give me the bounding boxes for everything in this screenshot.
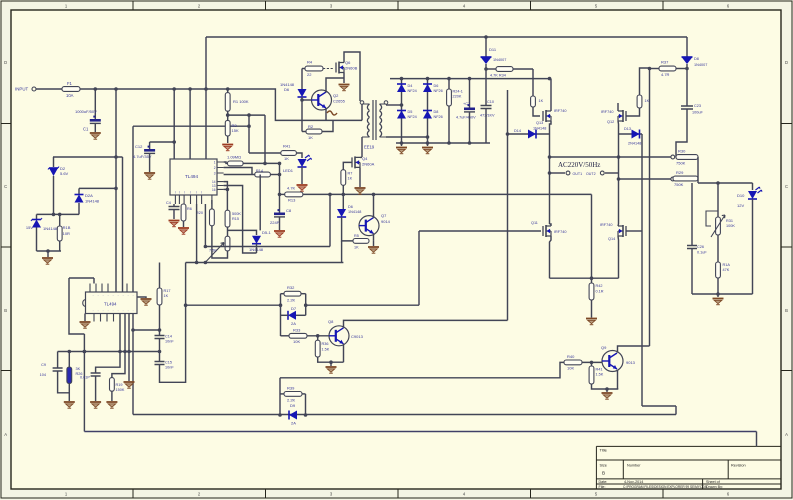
junction x618 y157 [617, 155, 621, 159]
resistor R3 [225, 120, 230, 136]
U1 pin stubs [175, 162, 223, 204]
wire rectifier top bus y78 [390, 78, 550, 80]
svg-text:4.7K: 4.7K [287, 186, 296, 191]
junction bus x330 [328, 193, 332, 197]
wire C9 bottom [58, 371, 70, 393]
wire C23 bottom to AC node [676, 109, 687, 157]
wire rectifier bottom bus y143 [396, 142, 490, 144]
wire R6 bottom [183, 221, 185, 227]
svg-text:D9: D9 [290, 403, 296, 408]
diode D9 [289, 411, 297, 420]
svg-text:+C7: +C7 [463, 102, 470, 106]
junction x84 bus [83, 350, 87, 354]
diode D6b 2N4148 [337, 209, 346, 217]
wire Q11 gate drive [419, 230, 541, 232]
svg-text:D11: D11 [489, 47, 497, 52]
diode D11 1N4007 [481, 57, 492, 64]
junction bus y351 x69.3 [68, 350, 72, 354]
wire R18 bottom loop [212, 226, 228, 258]
junction ground chain [46, 249, 50, 253]
resistor R32 [284, 291, 301, 296]
svg-text:B: B [602, 471, 605, 476]
resistor R14 [255, 172, 271, 177]
junction D11 top [484, 35, 488, 39]
wire D2A top to x116 [79, 187, 116, 189]
svg-text:A: A [4, 432, 7, 437]
wire D7 right stub [296, 314, 306, 316]
wire R32 loop right [305, 294, 307, 316]
svg-text:3: 3 [214, 172, 216, 176]
svg-text:2N60A: 2N60A [362, 162, 375, 167]
wire bridge leg2 [427, 79, 429, 143]
resistor R15 500K [225, 210, 230, 227]
svg-text:16: 16 [212, 188, 216, 192]
wire D7 left stub [281, 314, 289, 316]
terminal J2 [671, 177, 675, 181]
svg-text:C9: C9 [41, 363, 46, 367]
wire C26 top [691, 183, 693, 246]
terminal OUT1 [566, 171, 570, 175]
svg-text:2.2K: 2.2K [287, 298, 296, 303]
svg-text:Date:: Date: [599, 480, 608, 484]
svg-text:0.1R: 0.1R [596, 290, 604, 294]
junction loop right [304, 303, 308, 307]
ground under LED1 [297, 185, 308, 191]
wire R4 to Q6 gate dashed [323, 68, 334, 70]
wire y251 horizontal [37, 250, 62, 252]
svg-text:D: D [4, 60, 7, 65]
wire R42 to ground [591, 300, 593, 318]
svg-text:D2A: D2A [85, 193, 93, 198]
diode D7 [288, 311, 296, 320]
ground x126 [124, 382, 135, 388]
svg-text:2N4148: 2N4148 [628, 142, 641, 146]
transistor Q13 MOSFET IRF740 [543, 110, 551, 122]
wire R40 left [540, 362, 564, 377]
svg-text:22: 22 [307, 72, 312, 77]
junction R24-1 bottom [447, 141, 451, 145]
wire U1 pin1 to R12 [224, 162, 228, 163]
junction input rail x206 [204, 87, 208, 91]
transistor Q8 [329, 326, 349, 346]
svg-text:500K: 500K [232, 212, 241, 216]
junction leg2 bottom [426, 141, 430, 145]
resistor R2 [306, 129, 322, 134]
wire C7 bottom [469, 112, 471, 143]
wire R36 bottom [318, 357, 344, 362]
resistor R40 [564, 360, 582, 365]
svg-text:750K: 750K [674, 182, 684, 187]
junction y142 x174 [172, 140, 176, 144]
svg-text:NF24: NF24 [408, 89, 417, 93]
wire source rail y278 [550, 277, 619, 279]
svg-text:R4: R4 [307, 60, 313, 65]
junction input rail x116 [114, 87, 118, 91]
wire R12 right [243, 162, 279, 164]
wire R34 right [513, 68, 533, 70]
svg-text:4.7K R34: 4.7K R34 [490, 74, 506, 78]
wire D8 to C23 [686, 64, 688, 106]
svg-text:5.6V: 5.6V [60, 171, 69, 176]
wire transformer left top pin [361, 105, 363, 121]
svg-text:47K: 47K [723, 268, 730, 272]
svg-text:R1 100K: R1 100K [233, 99, 249, 104]
resistor R42 [589, 283, 594, 300]
wire C8 bottom [279, 217, 281, 230]
wire vertical x116 long [115, 89, 117, 292]
junction leg1 top [400, 77, 404, 81]
svg-text:D7: D7 [291, 306, 297, 311]
trimmer R18 wiper arrow [205, 243, 224, 263]
wire R19 bottom [111, 391, 113, 401]
wire x533 to R15b [532, 69, 534, 96]
wire Q8 collector [344, 320, 508, 327]
svg-text:R14: R14 [256, 169, 263, 173]
ground under zener chain [42, 258, 53, 264]
wire R37 left [650, 68, 660, 70]
wire bridge leg1 [401, 79, 403, 143]
svg-text:EE19: EE19 [364, 145, 375, 150]
resistor R33 [289, 333, 307, 338]
svg-text:Q6: Q6 [345, 60, 351, 65]
junction x116 y188 [114, 187, 118, 191]
capacitor C8 [274, 209, 285, 217]
junction y115 x249 [247, 113, 251, 117]
svg-text:104: 104 [40, 373, 46, 377]
svg-text:R15: R15 [232, 217, 239, 221]
svg-text:0.1uF: 0.1uF [697, 251, 707, 255]
wire x302 down [301, 97, 303, 132]
svg-text:Q9: Q9 [601, 345, 607, 350]
wire x756 to title block [756, 432, 758, 447]
ground under Q4 [355, 188, 366, 194]
junction C14 top [158, 328, 162, 332]
svg-text:R24-1: R24-1 [453, 90, 463, 94]
wire R43 to Q12 gate [626, 108, 640, 116]
wire R26 top [68, 352, 70, 368]
svg-text:R29: R29 [676, 170, 684, 175]
resistor R17 [157, 288, 162, 305]
junction Q2 base [300, 98, 304, 102]
diode D6u NF26 [423, 84, 432, 92]
wire OUT1 left [550, 172, 566, 174]
svg-text:0.01P: 0.01P [80, 376, 90, 380]
wire y378 long [280, 377, 540, 379]
wire AC box top [550, 156, 619, 158]
svg-text:C9013: C9013 [351, 334, 364, 339]
wire AC right bottom [619, 178, 671, 180]
svg-text:4.7uF/450V: 4.7uF/450V [456, 116, 476, 120]
junction bus y351 x129 [127, 350, 131, 354]
wire y126 horizontal [133, 125, 249, 127]
ground under R26 [64, 402, 75, 408]
wire Q2 collector stub [326, 78, 344, 93]
wire bus y194 [303, 193, 592, 195]
wire Q11 drain tie [550, 224, 552, 226]
wire R2 left [302, 131, 306, 133]
wire Q2 base [302, 99, 312, 101]
wire R41 top [591, 362, 593, 366]
svg-text:4-Nov-2014: 4-Nov-2014 [624, 480, 643, 484]
resistor R24-1 [447, 89, 452, 106]
junction bridge tap2 [426, 135, 430, 139]
wire Q6 drain to transformer [344, 52, 360, 101]
svg-text:C8: C8 [286, 208, 292, 213]
svg-text:Q12: Q12 [607, 120, 614, 124]
wire C1 top [94, 89, 96, 119]
wire R40 to Q9 base [582, 361, 603, 363]
wire LED D10 top [752, 183, 754, 190]
junction x265 y163 [263, 162, 267, 166]
svg-text:10nF: 10nF [165, 340, 174, 344]
wire U2 ground stub left [84, 314, 86, 322]
junction C7 bottom [468, 141, 472, 145]
input terminal [32, 87, 36, 91]
svg-text:10R: 10R [63, 231, 70, 236]
ground bridge leg2 [422, 148, 433, 154]
svg-text:1K: 1K [539, 99, 544, 103]
svg-text:D8: D8 [694, 57, 699, 61]
junction input rail x227.7 [226, 87, 230, 91]
svg-text:1.5K: 1.5K [322, 348, 330, 352]
junction bus y351 x159.5 [158, 350, 162, 354]
svg-text:D6: D6 [348, 205, 353, 209]
svg-text:D8: D8 [434, 110, 439, 114]
svg-text:Q2: Q2 [333, 93, 339, 98]
svg-text:LED1: LED1 [283, 168, 294, 173]
svg-text:2A: 2A [291, 321, 296, 326]
wire x507 long vertical [507, 90, 509, 320]
diode D2A [75, 195, 84, 203]
svg-text:100K: 100K [726, 224, 735, 228]
svg-text:1N4148: 1N4148 [43, 226, 58, 231]
junction bus y351 x125 [123, 350, 127, 354]
wire R1B bottom [59, 241, 61, 251]
wire pot top [717, 183, 719, 217]
svg-text:Q4: Q4 [362, 156, 368, 161]
svg-text:OUT1: OUT1 [573, 172, 583, 176]
svg-text:R41: R41 [596, 368, 603, 372]
resistor R4 [305, 66, 323, 71]
svg-text:1N4148: 1N4148 [533, 127, 546, 131]
wire D6b to R5 [342, 217, 353, 241]
svg-text:1K: 1K [284, 156, 289, 161]
wire Q11 source down [550, 236, 552, 278]
svg-text:D14: D14 [514, 129, 521, 133]
wire R39 left stub [280, 393, 284, 395]
wire U1 pin14 to R15 [224, 182, 228, 211]
capacitor C16 [91, 373, 101, 376]
capacitor C23 [681, 106, 693, 109]
terminal OUT2 [600, 171, 604, 175]
svg-text:C: C [785, 184, 788, 189]
svg-text:R32: R32 [287, 285, 295, 290]
wire U1 pin2 jog [224, 168, 252, 175]
wire top rail [206, 36, 687, 38]
svg-text:Q8: Q8 [328, 319, 334, 324]
ground under C8 [274, 231, 285, 237]
svg-text:Q14: Q14 [608, 237, 615, 241]
resistor R41 [281, 151, 297, 156]
wire ground stub [717, 294, 719, 297]
svg-text:D5-1: D5-1 [262, 230, 271, 235]
transistor Q9 [602, 351, 623, 372]
svg-text:1K: 1K [348, 177, 353, 181]
wire x642 long vertical [641, 134, 643, 406]
wire y153 to R41 [249, 152, 281, 154]
svg-text:R2: R2 [308, 124, 314, 129]
ground under Q7 [368, 247, 379, 253]
wire x197 down [196, 204, 198, 263]
svg-text:B: B [785, 308, 788, 313]
svg-text:C26: C26 [697, 245, 704, 249]
svg-text:12V: 12V [737, 203, 744, 208]
wire x53 down [53, 176, 55, 214]
svg-text:15K: 15K [232, 128, 239, 133]
wire Q6 source [343, 73, 345, 84]
wire R30R29 right vertical [697, 157, 699, 183]
terminal J1 [671, 155, 675, 159]
wire R24-1 top [448, 79, 450, 89]
wire Q9 ground stub [606, 389, 608, 392]
svg-text:IRF740: IRF740 [554, 230, 566, 234]
svg-text:10A: 10A [66, 93, 74, 98]
svg-text:D4: D4 [408, 84, 413, 88]
svg-text:NF26: NF26 [434, 115, 443, 119]
capacitor C4 [169, 207, 180, 210]
wire y214 horizontal [37, 213, 80, 215]
wire R39 loop right [305, 394, 307, 415]
wire transformer sec bottom tap [386, 136, 428, 138]
junction C7 top [468, 77, 472, 81]
ground under R42 [586, 319, 597, 325]
svg-text:C1: C1 [83, 127, 89, 132]
wire x133 long down [132, 314, 134, 415]
svg-text:15V: 15V [26, 225, 33, 230]
junction R34 left [484, 67, 488, 71]
wire R37 to D8 [676, 68, 687, 70]
wire D2 top [53, 157, 55, 167]
wire vertical x249 [248, 115, 250, 153]
ground under C1 [90, 133, 101, 139]
svg-text:C14: C14 [165, 335, 172, 339]
svg-text:1K: 1K [308, 135, 313, 140]
svg-text:1K: 1K [354, 246, 359, 250]
wire x302 to D6 [301, 69, 303, 90]
wire C9 top [57, 352, 59, 369]
resistor R43 1K [637, 95, 642, 108]
svg-text:File:: File: [599, 485, 606, 489]
potentiometer R31 wiper [711, 215, 725, 237]
svg-text:1N4148: 1N4148 [85, 199, 100, 204]
svg-text:R1B: R1B [63, 225, 71, 230]
junction ground rail [716, 292, 720, 296]
ground under R19 [106, 402, 117, 408]
wire U1 pin13 loop [224, 186, 257, 254]
svg-text:D6: D6 [284, 87, 290, 92]
svg-text:B: B [4, 308, 7, 313]
ground right side [713, 299, 724, 305]
capacitor C7 [464, 104, 475, 112]
wire R17 to C14 [159, 305, 161, 336]
diode D8 1N4007 [682, 57, 693, 64]
svg-text:R41: R41 [283, 144, 291, 149]
svg-text:R42: R42 [596, 284, 603, 288]
wire x343 to y262 [341, 241, 343, 263]
wire y183 to LED [698, 182, 753, 184]
svg-text:Title: Title [600, 448, 608, 453]
capacitor C9 [53, 368, 63, 371]
ground under C12 [144, 173, 155, 179]
junction y262 x205 [204, 261, 208, 265]
wire Q14 source down [617, 236, 620, 278]
svg-text:D: D [785, 60, 788, 65]
svg-text:1K: 1K [164, 294, 169, 298]
svg-text:1N4007: 1N4007 [694, 63, 707, 67]
wire vertical x260 [259, 175, 261, 231]
wire R33 right to Q8 base [307, 335, 329, 337]
wire Q7 collector to bus [373, 194, 375, 217]
svg-text:NF24: NF24 [408, 115, 417, 119]
title block [596, 446, 781, 489]
ground under Q8 [326, 367, 337, 373]
wire x205 down [204, 204, 206, 247]
wire x126 down [128, 314, 130, 382]
diode D4 NF24 [397, 84, 406, 92]
wire R1 to R3 [227, 111, 229, 120]
wire R20 top [211, 200, 213, 209]
wire C7 top [469, 79, 471, 108]
wire LED D10 bottom [752, 199, 754, 294]
wire D11 top [485, 37, 487, 57]
resistor R34 [496, 67, 513, 72]
wire R16 to Q13 gate [533, 107, 540, 116]
svg-text:1: 1 [214, 161, 216, 165]
wire ground rail y294 [692, 293, 753, 295]
svg-text:2.2K: 2.2K [287, 398, 296, 403]
ground right of U2 [141, 299, 152, 305]
wire D11 bottom [485, 64, 487, 69]
wire x676 stub [675, 406, 677, 415]
ground under Q6 [339, 85, 350, 91]
wire Q13 drain [550, 79, 552, 111]
resistor R29 [673, 176, 698, 181]
junction x279 top [278, 162, 282, 166]
wire R7 bottom to bus [342, 185, 344, 194]
wire bridge gnd1 stub [401, 143, 403, 146]
junction Q8 emitter gnd [329, 360, 333, 364]
junction x649 top [648, 67, 652, 71]
junction R39 loop br [304, 413, 308, 417]
junction Q8 base [316, 334, 320, 338]
svg-text:100uF: 100uF [692, 111, 703, 115]
svg-text:Q7: Q7 [381, 213, 387, 218]
svg-text:A: A [785, 432, 788, 437]
svg-text:750K: 750K [676, 161, 686, 166]
ground under R6 [178, 228, 189, 234]
junction D14 left [506, 132, 510, 136]
svg-text:TL494: TL494 [104, 302, 117, 307]
junction Q13 drain top [548, 77, 552, 81]
wire C16 top [96, 314, 120, 374]
resistor R5 [353, 239, 369, 244]
junction bus y351 x84.4 [83, 350, 87, 354]
wire R1 top [227, 89, 229, 93]
wire y142 horizontal [150, 141, 175, 143]
junction Q7 collector [372, 193, 376, 197]
wire x639 to R43 [640, 68, 650, 95]
wire R24-1 bottom [448, 106, 450, 143]
